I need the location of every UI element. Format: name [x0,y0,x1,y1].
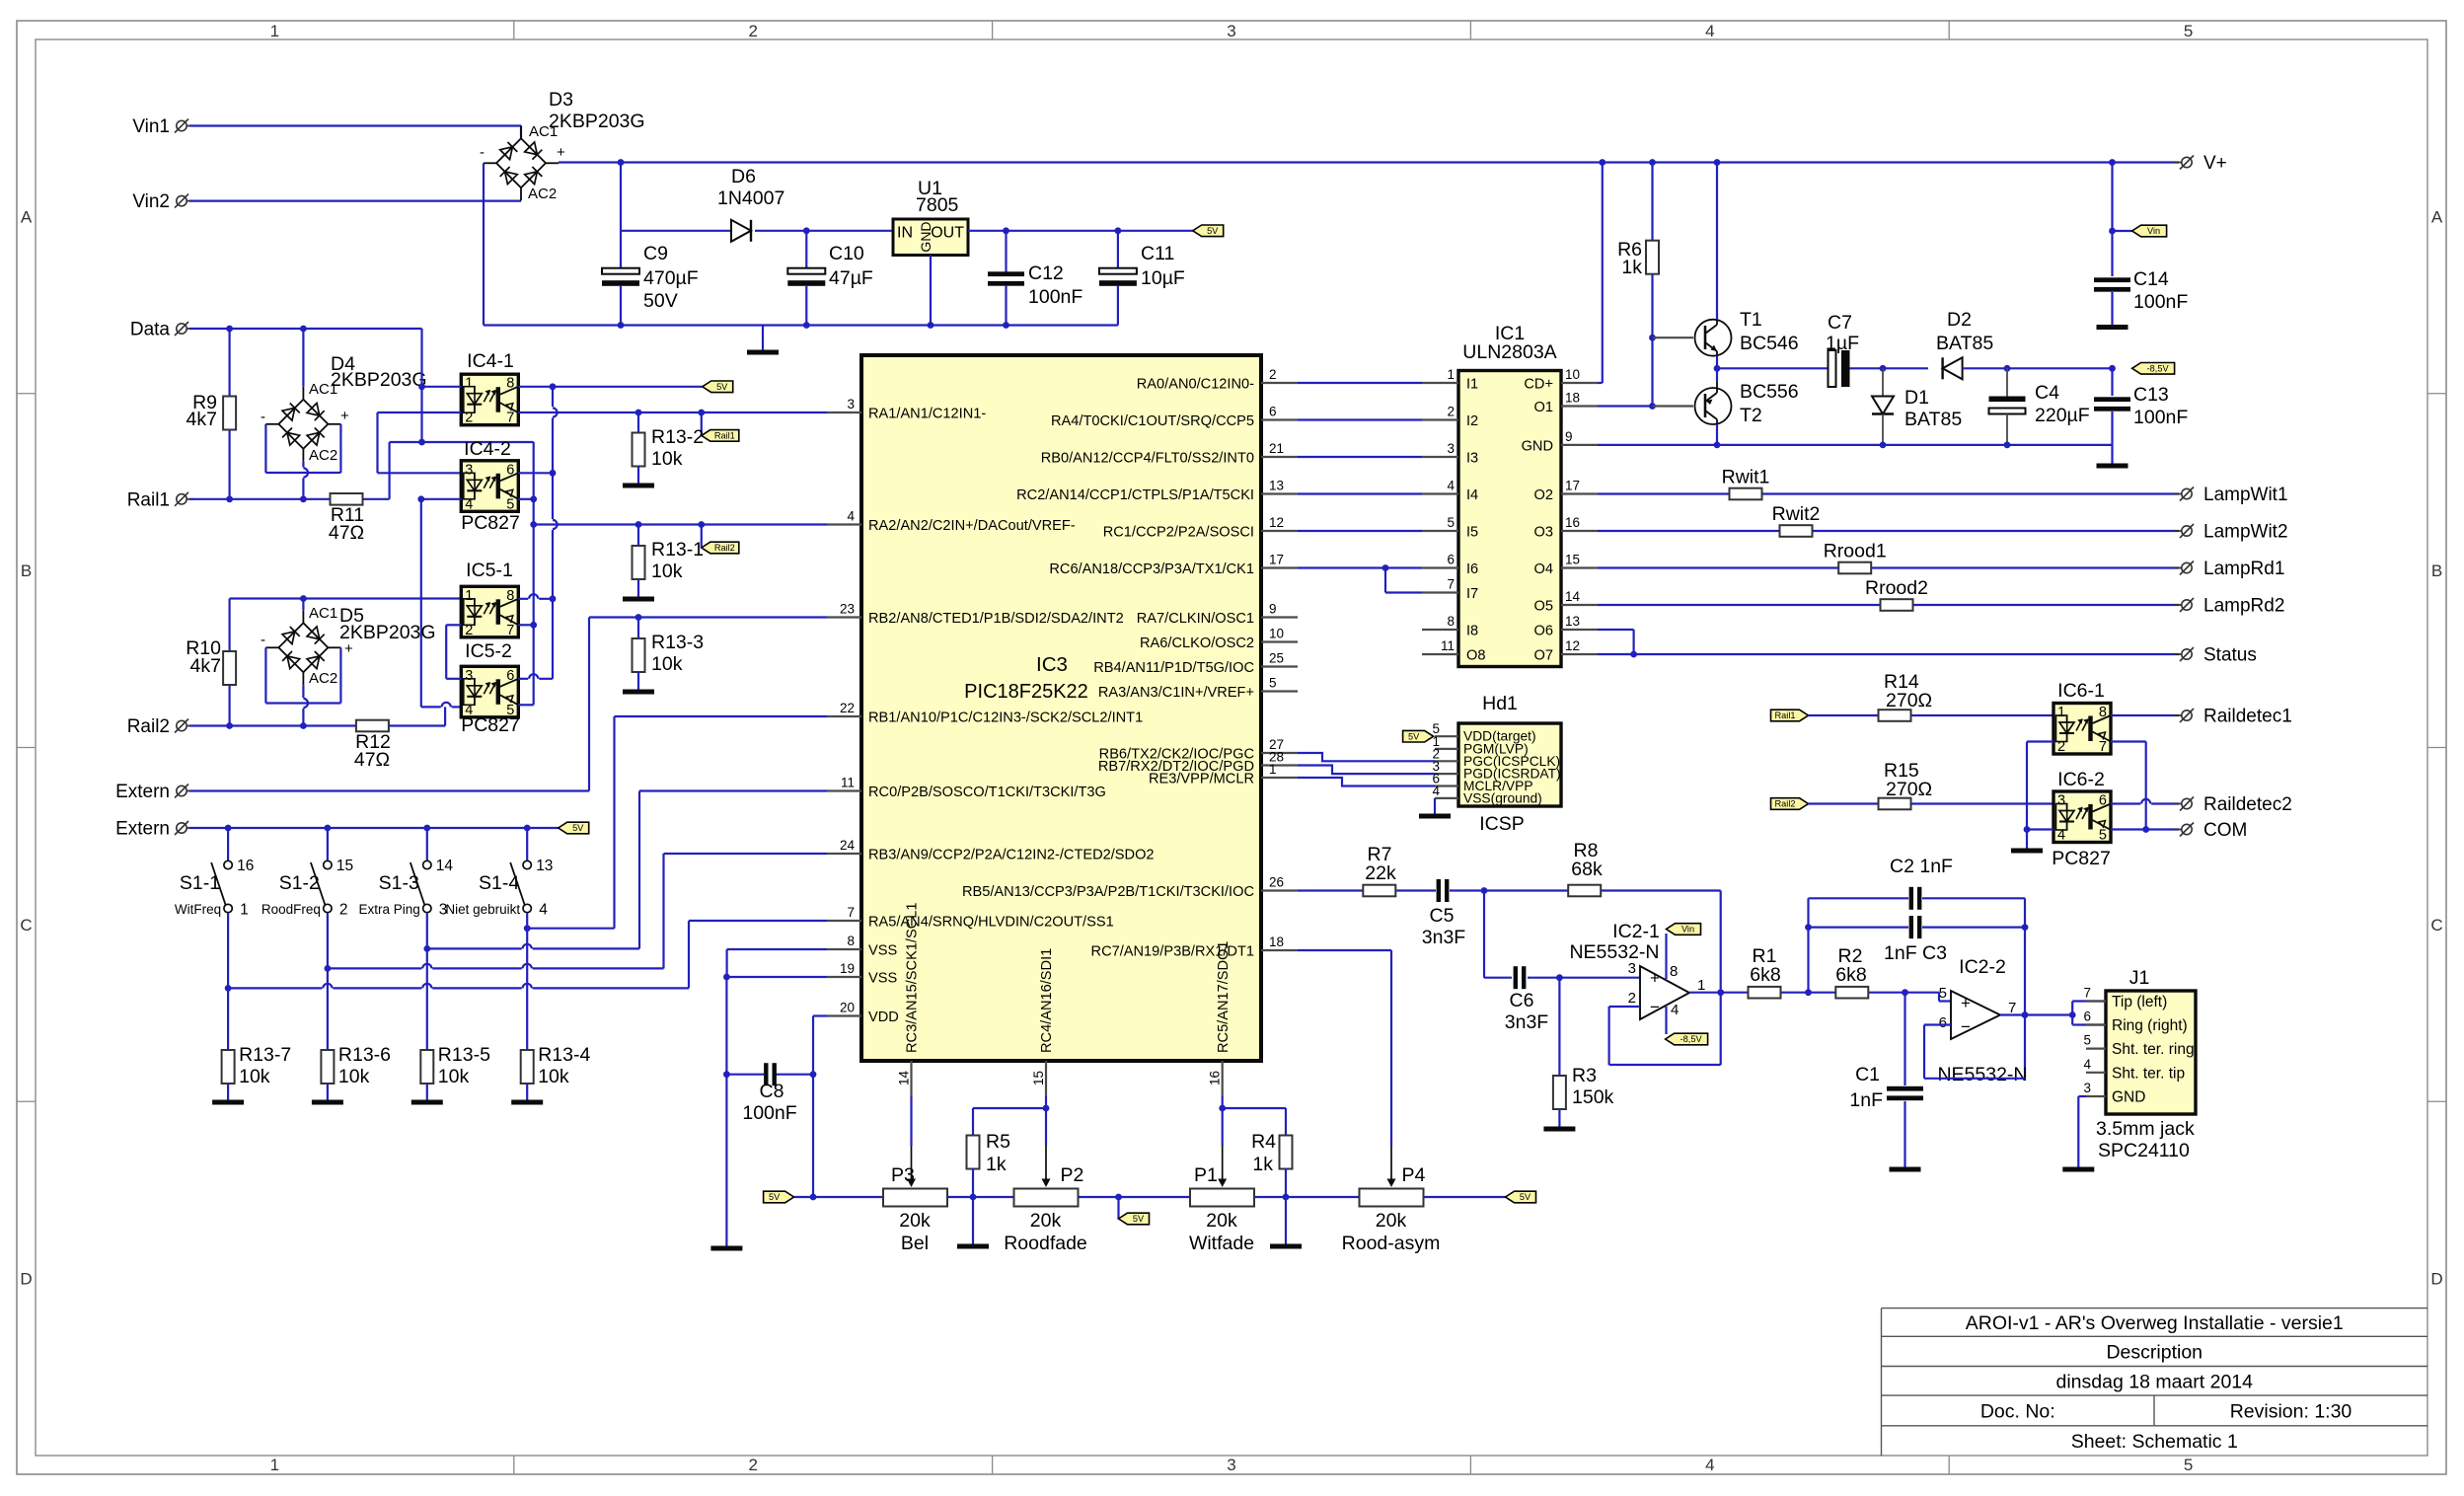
svg-text:7: 7 [1447,577,1455,592]
svg-text:7: 7 [2083,986,2091,1001]
svg-text:26: 26 [1269,875,1284,890]
svg-text:Status: Status [2203,645,2257,666]
svg-text:RA6/CLKO/OSC2: RA6/CLKO/OSC2 [1140,636,1254,651]
svg-text:4k7: 4k7 [190,655,221,677]
svg-text:18: 18 [1269,935,1284,949]
svg-text:LampWit1: LampWit1 [2203,485,2288,505]
svg-text:3: 3 [465,462,473,478]
svg-text:1: 1 [465,588,473,604]
svg-text:10k: 10k [338,1066,370,1087]
svg-text:Data: Data [130,320,171,340]
svg-text:S1-1: S1-1 [180,872,220,894]
svg-text:RB0/AN12/CCP4/FLT0/SS2/INT0: RB0/AN12/CCP4/FLT0/SS2/INT0 [1041,451,1254,467]
svg-text:Rwit1: Rwit1 [1722,467,1770,488]
svg-text:RC4/AN16/SDI1: RC4/AN16/SDI1 [1039,948,1055,1053]
svg-text:1nF: 1nF [1849,1089,1883,1111]
svg-text:Description: Description [2106,1342,2203,1364]
svg-text:J1: J1 [2129,967,2150,989]
svg-text:1: 1 [1447,367,1455,382]
svg-text:C2 1nF: C2 1nF [1890,856,1953,877]
svg-text:1: 1 [1697,977,1705,994]
svg-text:AROI-v1 - AR's Overweg Install: AROI-v1 - AR's Overweg Installatie - ver… [1966,1312,2344,1334]
svg-text:Rail2: Rail2 [127,716,170,737]
svg-text:17: 17 [1269,553,1284,567]
svg-text:150k: 150k [1572,1086,1614,1108]
svg-text:3: 3 [1227,1456,1235,1474]
svg-text:D6: D6 [731,166,756,187]
svg-text:1nF C3: 1nF C3 [1884,942,1947,964]
svg-text:I7: I7 [1466,586,1478,602]
svg-text:-: - [480,144,485,161]
svg-text:13: 13 [1565,614,1580,629]
svg-text:Rail1: Rail1 [127,489,170,510]
svg-text:R13-4: R13-4 [538,1044,590,1066]
svg-text:100nF: 100nF [1028,286,1083,308]
svg-text:C10: C10 [829,243,864,264]
svg-text:RA4/T0CKI/C1OUT/SRQ/CCP5: RA4/T0CKI/C1OUT/SRQ/CCP5 [1051,413,1254,429]
svg-text:I3: I3 [1466,451,1478,467]
svg-text:AC2: AC2 [528,186,557,202]
svg-text:RC6/AN18/CCP3/P3A/TX1/CK1: RC6/AN18/CCP3/P3A/TX1/CK1 [1049,561,1254,577]
svg-text:AC2: AC2 [309,447,337,464]
svg-text:18: 18 [1565,391,1580,406]
svg-text:270Ω: 270Ω [1886,779,1932,800]
svg-text:11: 11 [841,776,855,790]
svg-text:1µF: 1µF [1826,333,1859,354]
svg-text:5: 5 [1939,985,1947,1002]
svg-text:RB3/AN9/CCP2/P2A/C12IN2-/CTED2: RB3/AN9/CCP2/P2A/C12IN2-/CTED2/SDO2 [868,848,1155,863]
svg-text:RB2/AN8/CTED1/P1B/SDI2/SDA2/IN: RB2/AN8/CTED1/P1B/SDI2/SDA2/INT2 [868,611,1124,627]
svg-text:220µF: 220µF [2035,405,2090,426]
svg-text:IC2-2: IC2-2 [1959,956,2006,978]
svg-text:10k: 10k [651,448,683,470]
svg-text:PC827: PC827 [461,714,520,736]
svg-text:−: − [1961,1017,1971,1036]
svg-text:2: 2 [748,1456,757,1474]
svg-text:+: + [557,144,565,161]
svg-text:5: 5 [1269,676,1277,691]
svg-text:B: B [2431,561,2442,580]
svg-text:O6: O6 [1534,624,1553,639]
svg-text:10k: 10k [538,1066,569,1087]
svg-text:2: 2 [1628,990,1636,1007]
svg-text:O1: O1 [1534,400,1553,415]
svg-text:5V: 5V [572,823,584,833]
svg-text:P4: P4 [1402,1164,1426,1186]
svg-text:15: 15 [1031,1071,1046,1085]
svg-text:IC2-1: IC2-1 [1612,921,1660,942]
svg-text:R13-7: R13-7 [239,1044,291,1066]
svg-text:R13-5: R13-5 [438,1044,490,1066]
svg-text:-: - [261,409,265,425]
svg-text:Vin2: Vin2 [132,191,170,212]
svg-text:3.5mm jack: 3.5mm jack [2096,1118,2195,1140]
svg-text:4: 4 [1705,22,1714,40]
svg-text:1: 1 [270,1456,279,1474]
svg-text:V+: V+ [2203,153,2227,174]
svg-text:R13-6: R13-6 [338,1044,391,1066]
svg-text:5: 5 [2083,1033,2091,1048]
svg-text:VSS(ground): VSS(ground) [1463,790,1542,805]
svg-text:ULN2803A: ULN2803A [1462,341,1556,363]
svg-text:I4: I4 [1466,487,1478,503]
svg-text:COM: COM [2203,820,2247,841]
svg-text:Rail2: Rail2 [1775,799,1796,809]
svg-text:3n3F: 3n3F [1422,927,1466,948]
svg-text:Extern: Extern [115,819,170,840]
svg-text:C: C [2430,916,2442,935]
svg-text:6: 6 [1269,405,1277,419]
svg-text:AC1: AC1 [309,605,337,622]
svg-text:5: 5 [2184,1456,2193,1474]
svg-text:1k: 1k [1621,257,1642,278]
svg-text:+: + [1961,994,1971,1012]
svg-text:9: 9 [1269,602,1277,617]
svg-text:BC556: BC556 [1740,381,1799,403]
svg-text:CD+: CD+ [1524,377,1553,393]
svg-text:IC5-2: IC5-2 [465,640,512,662]
svg-text:16: 16 [1208,1071,1223,1085]
svg-text:LampRd1: LampRd1 [2203,559,2284,579]
svg-text:O2: O2 [1534,487,1553,503]
svg-text:13: 13 [536,858,553,874]
svg-text:PC827: PC827 [2052,848,2111,869]
svg-text:470µF: 470µF [643,267,699,289]
svg-text:2: 2 [1269,367,1277,382]
svg-text:14: 14 [436,858,454,874]
svg-text:Rood-asym: Rood-asym [1342,1233,1441,1254]
svg-text:RA2/AN2/C2IN+/DACout/VREF-: RA2/AN2/C2IN+/DACout/VREF- [868,518,1076,534]
svg-text:6k8: 6k8 [1835,964,1866,986]
svg-text:10: 10 [1269,627,1284,641]
svg-text:C1: C1 [1855,1064,1880,1085]
svg-text:14: 14 [1565,589,1581,604]
svg-text:P1: P1 [1194,1164,1218,1186]
svg-text:RB1/AN10/P1C/C12IN3-/SCK2/SCL2: RB1/AN10/P1C/C12IN3-/SCK2/SCL2/INT1 [868,711,1143,726]
svg-text:10: 10 [1565,367,1580,382]
svg-text:10k: 10k [239,1066,270,1087]
svg-text:R13-2: R13-2 [651,426,704,448]
svg-text:5V: 5V [1207,226,1219,236]
svg-text:19: 19 [840,961,855,976]
svg-text:6k8: 6k8 [1750,964,1780,986]
svg-text:Vin: Vin [1681,925,1694,935]
svg-text:C6: C6 [1510,990,1534,1011]
svg-text:2: 2 [339,902,348,919]
svg-text:Rail2: Rail2 [714,543,735,553]
svg-text:I5: I5 [1466,525,1478,541]
svg-text:Sht. ter. ring: Sht. ter. ring [2112,1041,2195,1058]
svg-text:100nF: 100nF [742,1102,796,1124]
svg-text:5: 5 [1447,515,1455,530]
svg-text:Rwit2: Rwit2 [1772,503,1821,525]
svg-text:+: + [1650,969,1660,988]
svg-text:R4: R4 [1251,1131,1276,1153]
svg-text:1k: 1k [1252,1154,1273,1175]
svg-text:5: 5 [2184,22,2193,40]
svg-text:47Ω: 47Ω [329,522,364,544]
svg-text:D: D [20,1270,32,1289]
svg-text:ICSP: ICSP [1479,813,1525,835]
svg-text:RE3/VPP/MCLR: RE3/VPP/MCLR [1149,772,1254,787]
svg-text:13: 13 [1269,479,1284,493]
svg-text:4: 4 [1447,479,1455,493]
svg-text:AC2: AC2 [309,670,337,687]
svg-text:VSS: VSS [868,971,897,987]
svg-text:4k7: 4k7 [187,409,217,430]
svg-text:5: 5 [506,496,514,512]
svg-text:A: A [2431,207,2443,226]
svg-text:R13-3: R13-3 [651,632,704,653]
svg-text:C5: C5 [1430,905,1455,927]
svg-text:IC4-2: IC4-2 [464,438,511,460]
svg-text:Doc. No:: Doc. No: [1980,1401,2055,1423]
svg-text:50V: 50V [643,290,678,312]
svg-text:6: 6 [2083,1010,2091,1024]
svg-text:Witfade: Witfade [1189,1233,1254,1254]
svg-text:4: 4 [1705,1456,1714,1474]
svg-text:IN: IN [897,225,913,242]
svg-text:R13-1: R13-1 [651,539,704,561]
svg-text:RA3/AN3/C1IN+/VREF+: RA3/AN3/C1IN+/VREF+ [1098,685,1254,701]
svg-text:3: 3 [465,668,473,684]
svg-text:IC6-1: IC6-1 [2057,680,2105,702]
svg-text:D: D [2430,1270,2442,1289]
svg-text:RA1/AN1/C12IN1-: RA1/AN1/C12IN1- [868,407,986,422]
svg-text:O7: O7 [1534,648,1553,664]
svg-text:270Ω: 270Ω [1886,690,1932,711]
svg-text:2: 2 [748,22,757,40]
svg-text:1: 1 [240,902,249,919]
svg-text:4: 4 [847,509,855,524]
svg-text:14: 14 [897,1070,912,1085]
svg-text:D2: D2 [1947,309,1972,331]
svg-text:15: 15 [1565,553,1580,567]
svg-text:OUT: OUT [931,225,964,242]
svg-text:2KBP203G: 2KBP203G [331,369,427,391]
svg-text:5V: 5V [1520,1192,1531,1202]
svg-text:WitFreq: WitFreq [175,902,221,917]
svg-text:68k: 68k [1571,859,1603,880]
svg-text:3: 3 [1227,22,1235,40]
svg-text:Hd1: Hd1 [1482,693,1518,714]
svg-text:I6: I6 [1466,561,1478,577]
svg-text:GND: GND [1522,439,1553,455]
svg-text:16: 16 [1565,515,1580,530]
svg-text:RA7/CLKIN/OSC1: RA7/CLKIN/OSC1 [1137,611,1254,627]
svg-text:T2: T2 [1740,405,1762,426]
svg-text:1: 1 [465,376,473,392]
svg-text:4: 4 [2083,1057,2091,1072]
svg-text:5V: 5V [716,382,728,392]
svg-text:5V: 5V [1408,731,1420,741]
svg-text:Vin1: Vin1 [132,116,170,137]
svg-text:6: 6 [1447,553,1455,567]
svg-text:2KBP203G: 2KBP203G [549,111,645,132]
svg-text:O5: O5 [1534,599,1553,615]
svg-text:T1: T1 [1740,309,1762,331]
svg-text:47Ω: 47Ω [354,749,390,771]
svg-text:+: + [340,408,349,424]
svg-text:3: 3 [847,397,855,411]
svg-text:-8,5V: -8,5V [1680,1034,1703,1044]
svg-text:RC3/AN15/SCK1/SCL1: RC3/AN15/SCK1/SCL1 [905,903,921,1053]
svg-text:1N4007: 1N4007 [717,187,784,209]
svg-text:-: - [261,632,265,648]
svg-text:IC3: IC3 [1036,653,1068,676]
svg-text:Ring (right): Ring (right) [2112,1017,2188,1034]
svg-text:NE5532-N: NE5532-N [1937,1064,2027,1085]
svg-text:I1: I1 [1466,377,1478,393]
svg-text:NE5532-N: NE5532-N [1569,941,1659,963]
svg-text:Rail1: Rail1 [1775,711,1796,720]
svg-text:P2: P2 [1061,1164,1084,1186]
svg-text:10µF: 10µF [1141,267,1185,289]
svg-text:20k: 20k [1206,1210,1237,1232]
svg-text:7: 7 [506,623,514,638]
svg-text:Rrood1: Rrood1 [1824,541,1887,562]
svg-text:BC546: BC546 [1740,333,1799,354]
svg-text:D3: D3 [549,89,573,111]
svg-text:3: 3 [2083,1081,2091,1095]
svg-text:O3: O3 [1534,525,1553,541]
svg-text:17: 17 [1565,479,1580,493]
svg-text:8: 8 [847,934,855,948]
svg-text:15: 15 [336,858,353,874]
svg-text:8: 8 [1447,614,1455,629]
svg-text:Revision: 1:30: Revision: 1:30 [2230,1401,2352,1423]
svg-text:BAT85: BAT85 [1936,333,1993,354]
svg-text:IC4-1: IC4-1 [467,350,514,372]
svg-text:1: 1 [2057,705,2065,720]
svg-text:LampRd2: LampRd2 [2203,596,2284,617]
svg-text:C11: C11 [1141,243,1174,264]
svg-text:4: 4 [539,902,548,919]
svg-text:20k: 20k [899,1210,931,1232]
svg-text:3: 3 [2057,793,2065,809]
svg-text:-8,5V: -8,5V [2147,364,2170,374]
svg-text:VSS: VSS [868,943,897,959]
svg-text:C4: C4 [2035,382,2059,404]
svg-text:47µF: 47µF [829,267,873,289]
svg-text:20k: 20k [1030,1210,1062,1232]
svg-text:RA0/AN0/C12IN0-: RA0/AN0/C12IN0- [1137,377,1254,393]
svg-text:21: 21 [1269,441,1284,456]
svg-text:5V: 5V [1133,1214,1145,1224]
svg-text:I8: I8 [1466,624,1478,639]
svg-text:A: A [21,207,33,226]
svg-text:C9: C9 [643,243,668,264]
svg-text:7: 7 [847,905,855,920]
svg-text:RoodFreq: RoodFreq [261,902,321,917]
svg-text:Extra Ping: Extra Ping [359,902,420,917]
svg-text:RC5/AN17/SDO1: RC5/AN17/SDO1 [1216,940,1232,1053]
svg-text:100nF: 100nF [2133,407,2188,428]
svg-text:O4: O4 [1534,561,1553,577]
svg-text:10k: 10k [651,653,683,675]
svg-text:Rail1: Rail1 [714,431,735,441]
svg-text:Niet gebruikt: Niet gebruikt [445,902,520,917]
svg-text:RB4/AN11/P1D/T5G/IOC: RB4/AN11/P1D/T5G/IOC [1093,660,1254,676]
svg-text:GND: GND [2112,1089,2145,1106]
svg-text:1: 1 [270,22,279,40]
svg-text:Vin: Vin [2147,226,2160,236]
svg-text:B: B [21,561,32,580]
svg-text:Sht. ter. tip: Sht. ter. tip [2112,1065,2185,1082]
svg-text:7: 7 [506,411,514,426]
svg-text:C8: C8 [760,1081,784,1102]
svg-text:7805: 7805 [916,194,959,216]
svg-text:4: 4 [1671,1002,1679,1018]
svg-text:12: 12 [1269,515,1284,530]
svg-text:100nF: 100nF [2133,291,2188,313]
svg-text:PC827: PC827 [461,512,520,534]
svg-text:C7: C7 [1828,312,1852,334]
svg-text:10k: 10k [651,561,683,582]
svg-text:Raildetec2: Raildetec2 [2203,794,2292,815]
svg-text:5: 5 [2099,828,2107,844]
svg-text:3: 3 [1447,441,1455,456]
svg-text:IC5-1: IC5-1 [466,560,513,581]
svg-text:C13: C13 [2133,384,2169,406]
svg-text:5V: 5V [769,1192,781,1202]
svg-text:BAT85: BAT85 [1904,409,1962,430]
svg-text:Tip (left): Tip (left) [2112,994,2167,1010]
svg-text:−: − [1650,998,1660,1016]
svg-text:C12: C12 [1028,262,1064,284]
svg-text:22k: 22k [1365,862,1396,884]
svg-text:Rrood2: Rrood2 [1865,577,1928,599]
svg-text:24: 24 [840,838,856,853]
svg-text:R3: R3 [1572,1065,1597,1086]
svg-text:12: 12 [1565,638,1580,653]
svg-text:S1-2: S1-2 [279,872,320,894]
svg-text:C14: C14 [2133,268,2169,290]
svg-text:8: 8 [1670,963,1678,980]
svg-text:SPC24110: SPC24110 [2098,1140,2190,1161]
svg-text:dinsdag 18 maart 2014: dinsdag 18 maart 2014 [2056,1372,2254,1393]
svg-text:Raildetec1: Raildetec1 [2203,707,2292,727]
svg-text:23: 23 [840,602,855,617]
svg-text:2: 2 [1447,405,1455,419]
svg-text:RC2/AN14/CCP1/CTPLS/P1A/T5CKI: RC2/AN14/CCP1/CTPLS/P1A/T5CKI [1016,487,1254,503]
svg-text:25: 25 [1269,651,1284,666]
svg-text:RC1/CCP2/P2A/SOSCI: RC1/CCP2/P2A/SOSCI [1103,525,1254,541]
svg-text:Roodfade: Roodfade [1004,1233,1087,1254]
svg-text:20: 20 [840,1001,855,1015]
svg-text:Bel: Bel [901,1233,929,1254]
svg-text:O8: O8 [1466,648,1485,664]
svg-text:Sheet: Schematic 1: Sheet: Schematic 1 [2071,1431,2238,1453]
svg-text:1k: 1k [986,1154,1007,1175]
svg-text:22: 22 [840,701,855,715]
svg-text:I2: I2 [1466,413,1478,429]
svg-text:LampWit2: LampWit2 [2203,522,2288,543]
svg-text:PIC18F25K22: PIC18F25K22 [964,681,1088,703]
svg-text:VDD: VDD [868,1010,899,1025]
svg-text:R5: R5 [986,1131,1010,1153]
svg-text:20k: 20k [1376,1210,1407,1232]
svg-text:S1-3: S1-3 [379,872,419,894]
svg-text:IC6-2: IC6-2 [2057,769,2105,790]
svg-text:3n3F: 3n3F [1505,1011,1549,1033]
svg-text:7: 7 [2099,739,2107,755]
svg-text:1: 1 [1269,762,1277,777]
svg-text:C: C [20,916,32,935]
svg-text:6: 6 [1939,1014,1947,1031]
svg-text:9: 9 [1565,429,1573,444]
svg-text:Extern: Extern [115,782,170,802]
